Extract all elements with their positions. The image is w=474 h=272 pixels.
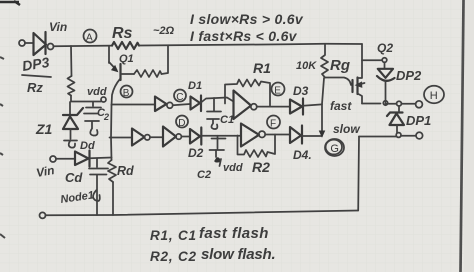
zener Z1 (35, 102, 83, 139)
inverter U1 (155, 97, 167, 112)
node1 hook (60, 189, 100, 206)
wire Rz bottom to vdd node (71, 96, 101, 102)
svg-text:C2: C2 (197, 169, 211, 181)
node H (424, 86, 444, 103)
node B (121, 86, 133, 99)
mosfet Q2 (353, 44, 365, 104)
gate net vertical with arrow (322, 78, 324, 133)
wire Rz tap (70, 46, 73, 76)
node D (176, 116, 188, 129)
wire Q1 collector (112, 79, 121, 105)
wire (201, 98, 234, 103)
svg-text:Cd: Cd (65, 170, 83, 185)
svg-text:R1, C1: R1, C1 (150, 228, 197, 243)
edge marks (0, 1, 20, 5)
row1 wire from bus (112, 104, 156, 106)
diode DP3 (21, 32, 51, 77)
svg-text:Dd: Dd (80, 140, 95, 152)
svg-text:A: A (86, 33, 93, 44)
capacitor C2 left (84, 102, 109, 122)
svg-text:DP1: DP1 (406, 113, 431, 128)
svg-text:Rz: Rz (27, 80, 43, 95)
svg-text:G: G (330, 143, 339, 155)
inverter U3 (132, 129, 145, 146)
resistor R1 feedback (225, 60, 271, 106)
svg-text:vdd: vdd (223, 162, 243, 174)
wire gate (325, 78, 351, 86)
svg-text:Rg: Rg (330, 57, 350, 74)
wire (181, 136, 190, 138)
diode DP1 (387, 106, 431, 133)
svg-text:vdd: vdd (87, 86, 107, 98)
svg-text:Rd: Rd (117, 164, 134, 178)
input terminal top-left (19, 40, 25, 46)
svg-text:D3: D3 (293, 84, 309, 98)
svg-text:Q2: Q2 (377, 41, 393, 55)
inverter U4 (163, 127, 176, 147)
vdd terminal (101, 97, 106, 102)
svg-text:Rs: Rs (112, 25, 133, 42)
svg-text:slow flash.: slow flash. (201, 246, 276, 263)
node C (174, 90, 186, 103)
transistor Q1 (109, 46, 134, 80)
capacitor C1 (207, 98, 234, 129)
wire base resistor to rail (162, 45, 169, 74)
svg-text:R2, C2: R2, C2 (150, 249, 197, 264)
bus vertical (110, 105, 113, 160)
svg-text:C: C (176, 92, 183, 103)
wire (56, 158, 75, 160)
capacitor C2 row2 (197, 136, 243, 181)
svg-text:10K: 10K (296, 60, 317, 72)
svg-text:I fast×Rs < 0.6v: I fast×Rs < 0.6v (190, 28, 298, 44)
wire (173, 104, 190, 105)
wire main top rail left (54, 45, 113, 48)
node F (267, 116, 280, 130)
inverter U5 (241, 124, 259, 147)
svg-text:D4.: D4. (293, 148, 312, 162)
svg-text:R1: R1 (253, 60, 271, 76)
svg-text:Z1: Z1 (35, 121, 53, 137)
svg-text:R2: R2 (252, 159, 270, 175)
row2 wire from bus (110, 137, 133, 139)
svg-text:fast flash: fast flash (199, 225, 269, 242)
page right edge (464, 0, 474, 272)
inverter U2 (234, 91, 252, 120)
bottom rail (46, 211, 359, 216)
svg-text:D2: D2 (188, 146, 204, 160)
svg-text:slow: slow (333, 122, 360, 136)
wire (90, 157, 112, 160)
svg-text:~2Ω: ~2Ω (153, 25, 175, 37)
wire (303, 104, 322, 105)
resistor Rs (112, 25, 139, 49)
svg-text:F: F (270, 118, 276, 129)
wire (202, 135, 241, 137)
svg-text:fast: fast (330, 99, 352, 113)
resistor Rz (68, 76, 75, 96)
resistor Rd (108, 160, 134, 182)
node after DP3 (48, 44, 54, 50)
wire (257, 106, 290, 108)
svg-text:Q1: Q1 (119, 53, 134, 65)
svg-text:E: E (274, 85, 281, 96)
capacitor Cd (65, 158, 108, 215)
wire (303, 135, 323, 137)
svg-text:Vin: Vin (49, 20, 67, 34)
wire (150, 136, 163, 138)
diode DP2 (377, 62, 422, 102)
bottom left input terminal (50, 156, 56, 162)
wire (265, 134, 290, 136)
resistor R base of Q1 (134, 70, 162, 77)
wire drain to DP2 (362, 59, 382, 61)
node E (272, 83, 285, 97)
diode D1 (188, 80, 202, 111)
svg-text:H: H (430, 90, 438, 102)
node A (84, 30, 97, 44)
node G (325, 139, 344, 156)
svg-text:B: B (123, 88, 130, 99)
svg-text:D: D (178, 118, 185, 129)
ground below C2 left (85, 121, 99, 136)
svg-text:C1: C1 (220, 114, 234, 126)
wire Q1 base (121, 73, 134, 75)
wire Rd to bottom rail (112, 182, 114, 215)
diode Dd (75, 140, 95, 167)
resistor Rg (296, 44, 350, 78)
resistor R2 feedback (238, 135, 276, 176)
ground below Z1 (64, 141, 77, 148)
diode D2 (188, 128, 204, 161)
svg-text:I slow×Rs > 0.6v: I slow×Rs > 0.6v (190, 11, 304, 27)
wire main top rail right (139, 44, 362, 46)
H rail wire (362, 103, 381, 105)
diode D4 (290, 126, 312, 163)
svg-text:DP2: DP2 (396, 68, 422, 83)
svg-text:D1: D1 (188, 80, 202, 92)
diode D3 (290, 84, 309, 115)
riser to bottom rail (357, 137, 360, 211)
svg-text:2: 2 (103, 112, 109, 122)
bottom right wire (359, 135, 416, 138)
wire (25, 42, 33, 44)
